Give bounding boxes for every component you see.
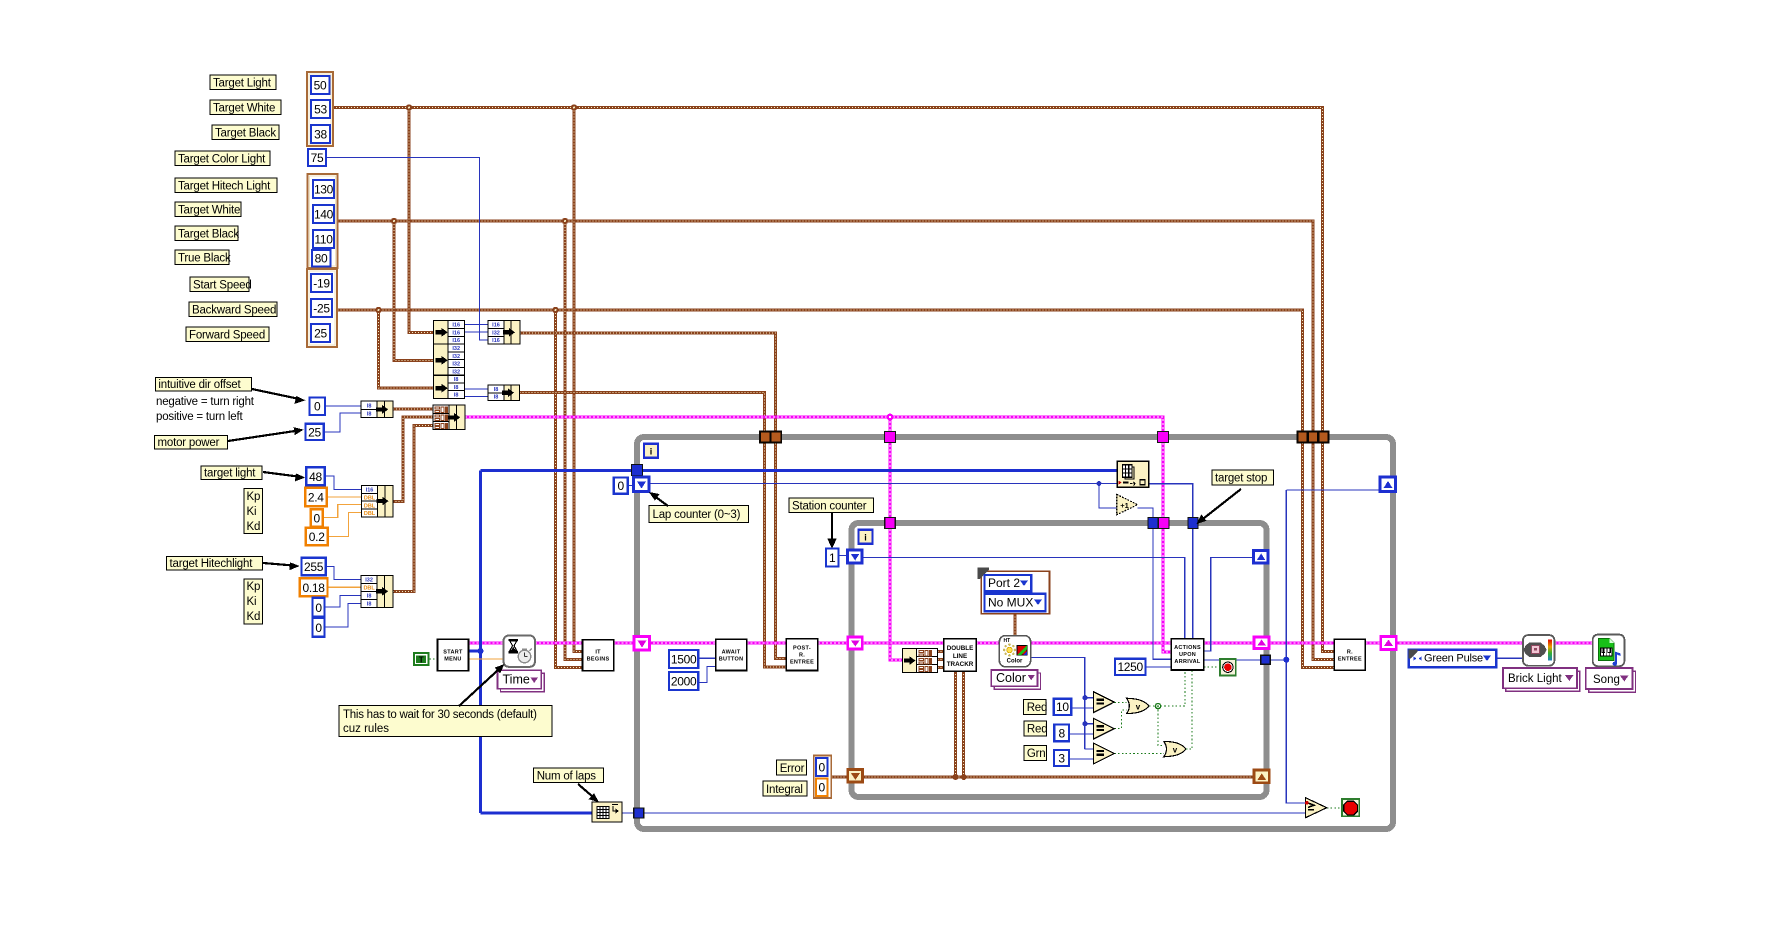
svg-text:POST-: POST- [793,646,811,652]
label Start Speed [190,277,252,292]
wire 10 to equal1 [1071,707,1093,709]
greater-equal node [1305,798,1327,818]
label Target Black 2 [175,226,239,241]
svg-text:I8: I8 [367,404,372,410]
bundle motor speeds [488,321,520,345]
shift register error cluster outer left [634,637,650,651]
svg-text:Red: Red [1027,702,1048,714]
svg-text:True Black: True Black [178,253,231,265]
svg-text:Target White: Target White [178,205,240,217]
wire greater-equal to stop button 2 [1327,807,1342,809]
wire Port2 cluster to HT Color [1014,614,1017,637]
svg-text:DBL: DBL [364,511,376,517]
svg-text:DOUBLE: DOUBLE [947,645,974,652]
wire plus1 to ACTIONS [1138,508,1172,659]
cluster frame targets hitech [308,174,338,268]
svg-text:HT: HT [1004,638,1011,644]
svg-text:AWAIT: AWAIT [722,650,741,656]
svg-text:target Hitechlight: target Hitechlight [170,558,254,570]
svg-text:50: 50 [314,79,327,93]
wire 0 Ki to hitech bundle [325,595,362,607]
label intuitive dir offset [155,378,251,392]
Brick Light node [1523,635,1554,666]
arrow motor power [228,427,304,441]
wire bundle1 motor speeds to POST-R ENTREE [520,333,786,658]
junction dots blue [478,481,1290,726]
svg-text:3: 3 [1058,752,1065,766]
label Kp Ki Kd 2 [244,579,263,624]
label Target Light [210,75,276,90]
svg-text:0: 0 [315,601,322,615]
svg-text:Green Pulse: Green Pulse [1424,653,1483,665]
wire 75 constant to bundle1 [326,158,488,341]
svg-text:0.2: 0.2 [309,530,325,544]
svg-text:I16: I16 [492,323,500,329]
svg-text:Lap counter (0~3): Lap counter (0~3) [653,509,741,521]
svg-text:I16: I16 [452,323,460,329]
label Lap counter [649,506,749,523]
wire branch cluster1 to unbundle sec1 [409,108,434,333]
svg-text:R.: R. [1347,650,1353,656]
wire 0 dir offset to bundle [325,405,361,407]
label Target White [210,100,281,115]
wire START MENU orange to wait [469,658,504,660]
wire hitech pid bundle to cluster bundle row3 [393,426,433,592]
wire 0.18 Kp to bundle [328,586,362,588]
wire 8 to equal2 [1069,733,1094,735]
wire dir bundle to cluster bundle row1 [393,408,433,411]
wire light pid bundle to cluster bundle row2 [393,417,434,502]
tunnel brown outer top x1322.5 [1319,432,1329,443]
svg-text:i: i [650,447,653,457]
constant 50 [311,76,330,94]
svg-text:53: 53 [314,103,327,117]
svg-text:2000: 2000 [671,675,697,689]
arrow target Hitechlight [263,562,300,570]
subvi DOUBLE LINE TRACKR [944,639,977,672]
label Red 1 [1024,700,1047,715]
svg-text:0: 0 [618,479,625,493]
label Backward Speed [189,302,277,317]
index array node [1117,461,1149,487]
wire or1 branch to or2 [1158,706,1164,745]
wire true constant to START MENU [429,658,437,660]
unbundle motor config inner [903,649,938,673]
svg-text:MENU: MENU [444,657,461,663]
svg-text:I8: I8 [494,387,499,393]
svg-text:Error: Error [780,763,805,775]
constant 25 [311,324,330,342]
tunnel magenta inner top x890 [885,518,896,529]
wire pid state shift register line [863,671,1255,777]
svg-text:Target White: Target White [213,103,275,115]
tunnel error inner right [1254,637,1269,649]
wires layer [323,104,1593,813]
shift register pid inner left [848,770,863,783]
shift register error inner left [848,637,863,649]
tunnel blue inner right y660 [1261,655,1271,664]
svg-text:R.: R. [799,653,805,659]
wire ACTIONS to stop button [1204,666,1220,668]
plus1 increment node [1117,494,1138,514]
svg-text:positive = turn left: positive = turn left [156,411,243,423]
svg-text:TRACKR: TRACKR [947,661,974,668]
wire equal3 to or2 [1114,753,1164,755]
svg-text:I32: I32 [452,362,460,368]
svg-text:8: 8 [1059,727,1066,741]
label Target White 2 [175,202,241,217]
cluster frame speeds [307,269,337,347]
wire ACTIONS blue output [1204,490,1381,803]
constant 80 [312,250,331,267]
svg-text:0: 0 [819,761,826,775]
wire unbundle sec1 to bundle1 [465,325,489,333]
junction dot green [1155,704,1160,709]
wire equal2 to or1 [1114,710,1126,729]
constant 3 [1054,750,1069,766]
num of laps array node [592,802,622,822]
svg-text:-19: -19 [313,277,330,291]
wire 25 motor power to bundle [324,413,362,432]
svg-text:I16: I16 [366,488,374,494]
wire branch cluster3 to IT BEGINS [556,310,583,667]
label Target Color Light [175,151,270,166]
wire cluster1 row to R.ENTREE [333,108,1334,652]
tunnel blue inner top x1193 [1188,518,1198,529]
constant 8 [1054,725,1069,742]
label Red 2 [1024,721,1048,736]
tunnel pid inner right [1254,770,1269,783]
constant 25 motor power [306,424,324,440]
svg-text:I32: I32 [365,578,373,584]
wire HT Color value to comparators [1029,658,1094,749]
svg-text:Target Black: Target Black [178,229,239,241]
tunnel brown outer top x1302.5 [1298,432,1308,443]
svg-text:ENTREE: ENTREE [790,660,814,666]
equal node 3 [1094,743,1115,764]
svg-text:UPON: UPON [1179,652,1196,658]
svg-text:25: 25 [308,426,321,440]
wire branch cluster3 to unbundle sec3 [379,310,434,388]
svg-text:Num of laps: Num of laps [537,771,597,783]
tunnel magenta outer top x890 [885,432,896,443]
constant 130 [313,180,334,198]
constant 2.4 Kp [305,488,327,507]
or gate 1 [1127,698,1149,713]
wire 1250 to ACTIONS [1146,666,1172,668]
svg-text:Color: Color [996,671,1026,685]
equal node 2 [1094,718,1115,739]
svg-text:negative = turn right: negative = turn right [156,396,255,408]
svg-text:I8: I8 [454,377,459,383]
svg-text:+1: +1 [1120,501,1129,510]
shift register station counter right [1254,551,1269,564]
constant 75 [308,149,326,166]
outer while loop border [637,437,1393,829]
svg-text:Color: Color [1007,659,1023,665]
shift register station counter left [848,550,863,563]
wire 0 Ki to pid bundle [323,505,362,518]
svg-text:intuitive dir offset: intuitive dir offset [158,379,241,391]
constant 1 station init [826,549,839,567]
wire 0 Kd to hitech bundle [325,603,362,627]
wire 0.2 Kd to pid bundle [328,513,362,537]
svg-text:Target Hitech Light: Target Hitech Light [178,181,271,193]
svg-text:Kd: Kd [247,611,261,623]
svg-text:2.4: 2.4 [308,491,324,505]
constant 48 target light [306,467,325,485]
svg-text:i: i [864,533,867,543]
svg-text:v: v [1173,746,1178,755]
label Target Hitech Light [175,178,277,193]
tunnel error cluster outer right [1381,637,1397,650]
svg-text:BUTTON: BUTTON [719,657,744,663]
bundle light pid [362,485,394,517]
svg-text:I8: I8 [367,412,372,418]
label Station counter [789,498,874,513]
cluster Port2 NoMUX [978,568,1050,614]
svg-text:ENTREE: ENTREE [1338,657,1362,663]
svg-text:0: 0 [819,781,826,795]
svg-text:Kd: Kd [247,521,261,533]
shift register lap counter right [1380,477,1396,492]
svg-text:10: 10 [1056,700,1069,714]
bundle dir offsets [488,385,520,401]
constant 1250 [1115,659,1146,675]
constant 38 [311,125,330,143]
svg-text:Port 2: Port 2 [988,576,1020,590]
svg-text:This has to wait for 30 second: This has to wait for 30 seconds (default… [343,709,537,721]
svg-text:Target Light: Target Light [213,78,272,90]
inner while loop border [852,523,1267,797]
ring Green Pulse [1409,650,1497,668]
svg-text:Time: Time [503,673,530,687]
ring Brick Light [1503,668,1580,691]
svg-text:Grn: Grn [1027,748,1046,760]
svg-text:110: 110 [314,233,333,247]
constant 0 Ki [311,509,323,526]
label Integral [763,781,807,796]
svg-text:1: 1 [829,551,836,565]
unbundle by name big [434,321,465,399]
constant 0.2 Kd [306,528,328,546]
wire branch cluster2 to unbundle sec2 [394,221,434,360]
svg-text:Forward Speed: Forward Speed [189,330,265,342]
bundle hitech pid [361,575,393,607]
svg-text:No MUX: No MUX [988,596,1033,610]
svg-text:DBL: DBL [363,586,375,592]
arrow comment to wait [459,664,504,706]
label Kp Ki Kd 1 [244,489,263,534]
label target Hitechlight [167,556,263,570]
svg-text:I8: I8 [494,395,499,401]
wire num of laps to greater-equal [622,812,1306,814]
svg-text:I32: I32 [452,346,460,352]
label target light [201,466,262,480]
label Forward Speed [186,327,269,342]
svg-text:0: 0 [314,400,321,414]
wire lap counter shift register to index array [649,484,1117,509]
tunnel brown outer top x1312.5 [1308,432,1318,443]
svg-text:25: 25 [314,327,327,341]
constant 140 [313,205,334,223]
constant 53 [311,100,330,118]
cluster error integral constant [814,756,832,799]
wire index array target stop to ACTIONS [1149,484,1193,639]
svg-text:0.18: 0.18 [303,581,326,595]
tunnels layer [632,432,1397,819]
iteration i outer [644,444,658,458]
nodes layer [300,72,1636,822]
constant 0 lap init [614,478,628,494]
label True Black [175,250,231,265]
wire Green Pulse to Brick Light [1496,657,1523,659]
constant 10 [1054,699,1072,715]
constant -19 [311,274,332,292]
svg-text:Brick Light: Brick Light [1508,673,1562,685]
svg-text:Station counter: Station counter [792,501,867,513]
constant 110 [313,230,334,248]
wire 2.4 Kp to pid bundle [327,496,362,498]
svg-text:0: 0 [315,621,322,635]
arrow num of laps [578,784,599,802]
tunnel magenta inner top x1163 [1159,518,1170,529]
wire station counter 1 init [838,555,848,557]
arrow station counter [827,513,837,549]
wire 3 to equal3 [1069,758,1094,760]
wire 48 target light to pid bundle [325,476,362,490]
wire bundle2 dir offsets to POST-R ENTREE [520,393,787,668]
wire unbundle sec3 to bundle2 [465,389,489,397]
ring Color [991,670,1040,689]
label Grn [1024,746,1047,761]
svg-text:I8: I8 [367,594,372,600]
constant 0 Kd hitech [313,618,325,637]
wire cluster2 row to R.ENTREE [338,221,1335,659]
tunnel magenta outer top x1163 [1158,432,1169,443]
label Error [777,760,807,775]
svg-text:-25: -25 [313,302,330,316]
subvi R ENTREE [1334,639,1365,670]
wire cluster3 row to R.ENTREE [338,310,1335,667]
svg-text:ARRIVAL: ARRIVAL [1174,659,1200,665]
wire equal1 to or1 [1114,701,1126,703]
constant 2000 [669,672,698,690]
arrow target stop [1197,489,1241,524]
svg-text:Target Color Light: Target Color Light [178,154,266,166]
wire ACTIONS incremented station to shift register [1204,558,1254,652]
svg-text:I32: I32 [452,354,460,360]
constant true T [413,652,429,666]
svg-text:I16: I16 [452,338,460,344]
arrow lap counter [649,492,668,506]
label motor power [155,436,228,450]
svg-text:Song: Song [1593,674,1620,686]
wire error cluster chain [469,642,1593,645]
svg-text:I8: I8 [367,602,372,608]
shift register lap counter left [634,477,650,492]
wait timer icon [504,636,535,667]
svg-text:I8: I8 [454,385,459,391]
svg-text:1250: 1250 [1117,660,1143,674]
svg-text:target light: target light [204,468,256,480]
stop button 1 [1220,659,1236,676]
svg-text:I32: I32 [452,369,460,375]
wire 2000 to AWAIT BUTTON [698,667,715,683]
svg-text:48: 48 [309,470,322,484]
svg-text:T: T [419,656,424,665]
subvi POST-R ENTREE [786,639,818,671]
subvi IT BEGINS [583,640,614,671]
constant 0 dir offset [310,398,326,416]
equal node 1 [1094,692,1115,713]
wire or2 to ACTIONS [1186,671,1192,749]
labels layer [155,75,1274,802]
subvi AWAIT BUTTON [716,639,747,670]
wire branch cluster2 to IT BEGINS [565,221,583,660]
subvi ACTIONS UPON ARRIVAL [1171,639,1204,670]
svg-text:80: 80 [315,252,328,266]
svg-text:motor power: motor power [158,437,220,449]
tunnel brown outer top x765 [760,432,771,443]
constant 0.18 Kp [300,578,328,596]
svg-text:v: v [1136,703,1141,712]
svg-text:Start Speed: Start Speed [193,280,252,292]
constant 255 target hitechlight [302,558,326,576]
svg-text:DBL: DBL [364,503,376,509]
svg-text:IT: IT [595,650,601,656]
constant -25 [311,299,332,317]
svg-text:DBL: DBL [364,495,376,501]
svg-text:Integral: Integral [766,784,803,796]
svg-text:Kp: Kp [247,581,261,593]
svg-text:I16: I16 [452,330,460,336]
tunnel blue array outer left y470 [632,465,643,476]
svg-text:75: 75 [311,151,324,165]
svg-text:cuz rules: cuz rules [343,723,389,735]
stop button 2 [1342,799,1359,816]
ring Time [498,670,545,692]
tunnel brown outer top x775.5 [771,432,782,443]
wire or1 to ACTIONS [1149,671,1185,706]
arrow intuitive dir offset [252,389,306,404]
svg-text:I32: I32 [492,330,500,336]
svg-text:ACTIONS: ACTIONS [1174,645,1201,651]
constant 0 Ki hitech [313,598,325,617]
wire START MENU array output [469,470,1117,813]
wire 255 target hitech to bundle [326,567,361,580]
or gate 2 [1164,741,1186,756]
bundle intuitive dir [361,401,393,418]
wire error integral cluster to shift register [831,776,848,779]
svg-text:START: START [443,650,463,656]
svg-text:BEGINS: BEGINS [587,657,610,663]
label Num of laps [534,768,604,783]
wire 1500 to AWAIT BUTTON [698,657,715,659]
svg-text:255: 255 [304,560,324,574]
comment wait 30 seconds [339,706,552,737]
svg-text:target stop: target stop [1215,473,1267,485]
label target stop [1212,470,1274,485]
svg-text:130: 130 [314,183,334,197]
arrow target light [263,472,305,481]
wire motor config cluster bundle to ACTIONS [465,417,1171,652]
svg-text:I16: I16 [492,338,500,344]
bundle motor config clusters [433,405,465,430]
wire lap counter 0 init [628,485,635,487]
junction dot magenta [887,414,894,421]
tunnel num laps outer left [634,808,644,818]
